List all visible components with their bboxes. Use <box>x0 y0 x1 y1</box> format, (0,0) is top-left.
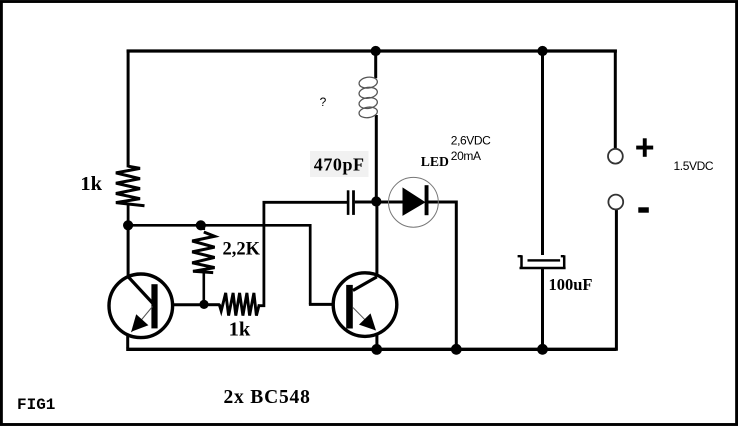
wire battery plus drop <box>614 50 617 149</box>
svg-text:FIG1: FIG1 <box>17 396 55 414</box>
LED D1 circle <box>389 177 439 227</box>
label 2,2K <box>223 240 261 260</box>
resistor R1 1k <box>116 166 145 206</box>
label 470pF background <box>310 151 369 177</box>
battery plus terminal <box>608 149 623 164</box>
svg-text:2,6VDC: 2,6VDC <box>451 133 491 147</box>
plus sign <box>636 138 653 157</box>
svg-text:1.5VDC: 1.5VDC <box>674 159 714 173</box>
resistor R2 2,2K <box>192 232 214 273</box>
text 2,6VDC <box>451 133 491 147</box>
wire left drop to R1 <box>127 50 130 168</box>
node dot Q2 emitter rail <box>371 344 382 355</box>
wire battery minus riser <box>615 209 618 350</box>
label ? (inductor value) <box>320 95 327 109</box>
wire R1 bottom to node <box>127 205 130 226</box>
wire LED cathode right and down <box>428 202 456 349</box>
wire 2,2K bottom stub <box>203 273 206 305</box>
label 1k (R3) <box>229 319 251 341</box>
wire Q2 base feed <box>309 303 347 306</box>
node dot left R1 bottom <box>123 220 133 230</box>
battery minus terminal <box>608 195 623 210</box>
wire node to R3 left <box>204 303 220 306</box>
minus sign <box>638 207 649 212</box>
LED D1 cathode bar <box>425 185 429 215</box>
text 20mA <box>451 149 481 163</box>
wire node to LED anode <box>376 201 403 204</box>
label 470pF <box>314 155 365 175</box>
label LED <box>421 154 449 169</box>
wire node line y225 <box>128 224 310 227</box>
node dot LED/C1 <box>371 196 381 206</box>
node dot 2,2K top <box>196 220 206 230</box>
node dot top inductor <box>371 46 381 56</box>
wire inductor bottom to node <box>375 115 378 202</box>
svg-text:1k: 1k <box>80 173 102 195</box>
wire Q1 base <box>158 303 205 306</box>
label 2x BC548 <box>224 387 311 408</box>
wire inductor top <box>374 51 377 78</box>
capacitor C1 470pF <box>347 190 355 215</box>
wire R3 right up to C1 <box>259 202 347 305</box>
wire vertical x310 <box>309 224 312 304</box>
wire Q1 collector <box>127 224 130 278</box>
node dot Q1 base <box>199 300 208 309</box>
transistor Q2 BC548 <box>333 273 397 337</box>
wire 100uF top <box>541 50 544 255</box>
wire 2,2K top stub <box>203 225 206 230</box>
label 100uF <box>549 275 593 294</box>
svg-text:LED: LED <box>421 154 449 169</box>
node dot LED branch rail <box>451 344 462 355</box>
wire Q2 collector <box>375 200 378 277</box>
svg-text:?: ? <box>320 95 327 109</box>
wire Q1 emitter <box>126 334 129 348</box>
wire C1 right to node <box>355 201 377 204</box>
wire top rail <box>127 49 617 52</box>
node dot top 100uF <box>537 46 547 56</box>
node dot 100uF rail <box>537 344 548 355</box>
svg-text:100uF: 100uF <box>549 275 593 294</box>
transistor Q1 BC548 <box>109 274 173 338</box>
svg-text:2x BC548: 2x BC548 <box>224 387 311 408</box>
inductor L1 <box>358 76 378 119</box>
label 1k (R1) <box>80 173 102 195</box>
svg-text:470pF: 470pF <box>314 155 365 175</box>
capacitor C2 100uF <box>518 255 566 268</box>
wire bottom rail <box>126 348 616 351</box>
svg-text:20mA: 20mA <box>451 149 481 163</box>
svg-text:2,2K: 2,2K <box>223 240 261 260</box>
LED D1 anode triangle <box>403 187 426 216</box>
svg-text:1k: 1k <box>229 319 251 341</box>
wire 100uF bottom <box>541 268 544 349</box>
text 1.5VDC <box>674 159 714 173</box>
resistor R3 1k <box>219 293 259 316</box>
label FIG1 <box>17 396 55 414</box>
wire Q2 emitter <box>375 334 378 350</box>
